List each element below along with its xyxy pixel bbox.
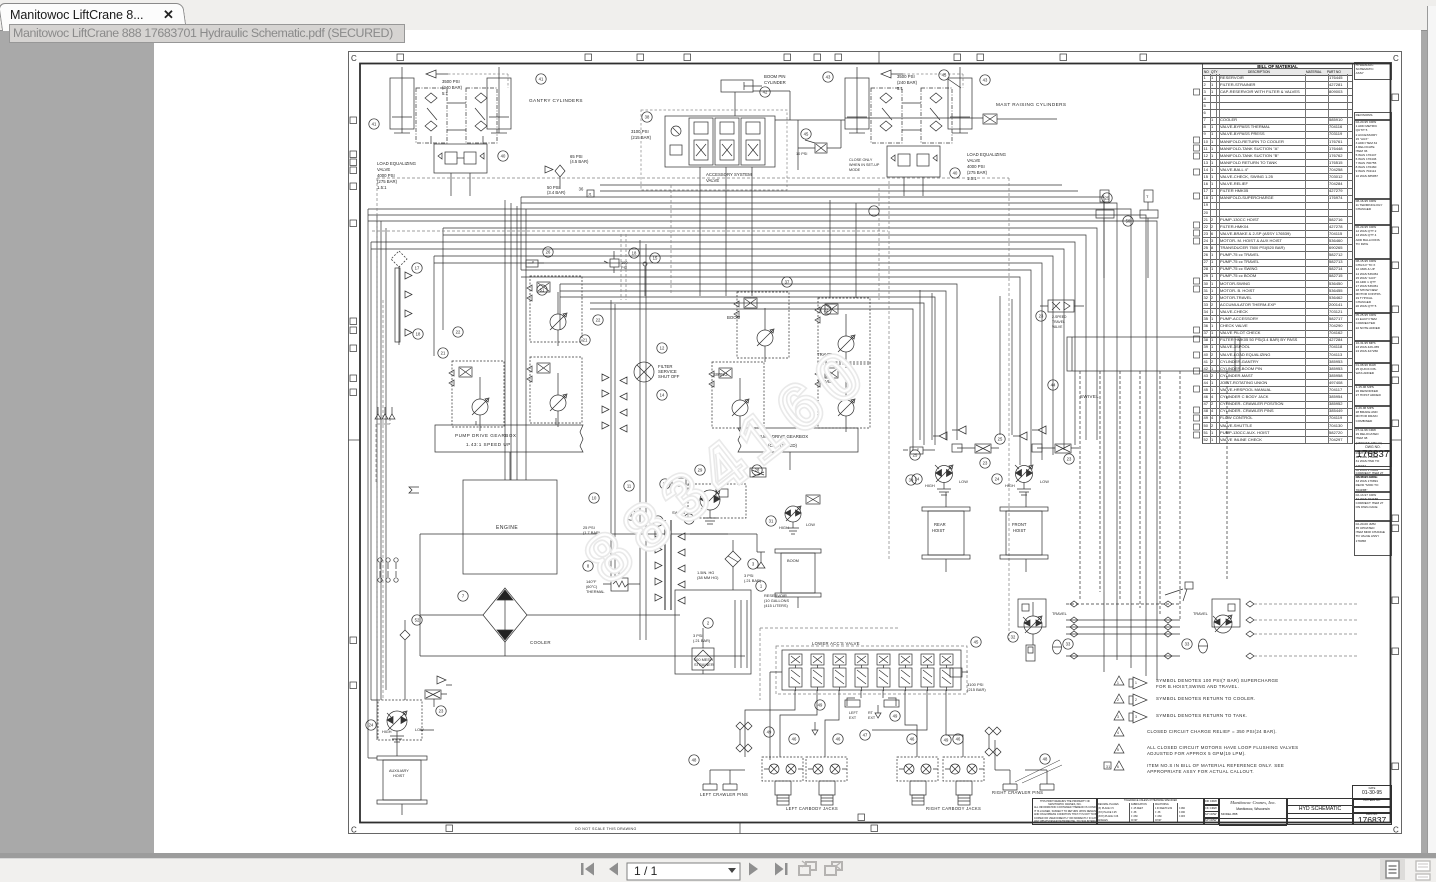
- svg-text:10: 10: [592, 496, 597, 501]
- svg-text:1.43:1 SPEED UP: 1.43:1 SPEED UP: [466, 442, 511, 447]
- svg-text:25: 25: [1105, 196, 1110, 201]
- svg-text:(275 BAR): (275 BAR): [377, 179, 398, 184]
- svg-text:MAST RAISING CYLINDERS: MAST RAISING CYLINDERS: [996, 102, 1066, 107]
- svg-text:SWIVEL: SWIVEL: [1080, 394, 1099, 399]
- svg-text:44: 44: [1051, 383, 1056, 388]
- svg-text:33: 33: [1185, 642, 1190, 647]
- svg-text:(240 BAR): (240 BAR): [442, 85, 463, 90]
- svg-text:46: 46: [836, 737, 841, 742]
- svg-text:LOW: LOW: [415, 728, 424, 732]
- svg-text:18: 18: [632, 251, 637, 256]
- svg-text:11: 11: [627, 484, 632, 489]
- svg-text:VALVE: VALVE: [377, 167, 390, 172]
- svg-text:2: 2: [707, 621, 710, 626]
- svg-text:(.21 BAR): (.21 BAR): [693, 638, 711, 643]
- svg-text:HOIST: HOIST: [932, 528, 945, 533]
- svg-text:1: 1: [1135, 681, 1137, 685]
- svg-text:41: 41: [539, 77, 544, 82]
- svg-text:ALL CLOSED CIRCUIT MOTORS HAVE: ALL CLOSED CIRCUIT MOTORS HAVE LOOP FLUS…: [1147, 745, 1298, 750]
- svg-text:HIGH: HIGH: [925, 483, 935, 488]
- svg-text:STRAINER: STRAINER: [694, 662, 714, 667]
- svg-text:LOW: LOW: [959, 479, 968, 484]
- svg-text:43: 43: [983, 78, 988, 83]
- svg-text:8: 8: [587, 564, 590, 569]
- svg-text:5:1: 5:1: [897, 86, 904, 91]
- svg-text:(4.5 BAR): (4.5 BAR): [570, 159, 589, 164]
- svg-text:WHEN IN SET-UP: WHEN IN SET-UP: [849, 163, 880, 167]
- svg-text:42: 42: [763, 90, 768, 95]
- svg-text:49: 49: [944, 738, 949, 743]
- svg-text:15: 15: [653, 256, 658, 261]
- svg-text:17: 17: [415, 266, 420, 271]
- svg-text:ITEM NO.S IN BILL OF MATERIAL: ITEM NO.S IN BILL OF MATERIAL REFERENCE …: [1147, 763, 1284, 768]
- svg-text:3500 PSI: 3500 PSI: [442, 79, 460, 84]
- svg-text:47: 47: [863, 733, 868, 738]
- svg-text:THERMAL: THERMAL: [586, 589, 605, 594]
- svg-text:30: 30: [909, 478, 914, 483]
- svg-text:21: 21: [441, 351, 446, 356]
- svg-text:1.5:1: 1.5:1: [377, 185, 387, 190]
- svg-text:2: 2: [1117, 698, 1119, 702]
- svg-text:CYLINDER: CYLINDER: [764, 80, 786, 85]
- svg-text:ACCESSORY SYSTEM: ACCESSORY SYSTEM: [706, 172, 752, 177]
- svg-text:21: 21: [583, 338, 588, 343]
- svg-text:10 PSI: 10 PSI: [796, 152, 807, 156]
- svg-text:HIGH: HIGH: [382, 730, 392, 734]
- svg-text:TRAVEL: TRAVEL: [1052, 320, 1065, 324]
- svg-text:FRONT: FRONT: [1012, 522, 1027, 527]
- svg-text:33: 33: [1066, 642, 1071, 647]
- svg-text:(3.4 BAR): (3.4 BAR): [547, 190, 566, 195]
- svg-text:51: 51: [540, 288, 545, 293]
- svg-text:T: T: [1146, 194, 1149, 199]
- svg-text:AUXILIARY: AUXILIARY: [389, 769, 409, 773]
- svg-text:VALVE: VALVE: [1052, 325, 1063, 329]
- svg-text:2: 2: [1135, 698, 1137, 702]
- svg-text:26: 26: [546, 250, 551, 255]
- svg-text:46: 46: [956, 737, 961, 742]
- svg-text:TRAVEL: TRAVEL: [1052, 611, 1068, 616]
- svg-text:(.21 BAR): (.21 BAR): [744, 578, 762, 583]
- svg-text:C: C: [1393, 826, 1399, 835]
- svg-text:(38 MM HG): (38 MM HG): [697, 575, 719, 580]
- svg-text:LEFT CARBODY JACKS: LEFT CARBODY JACKS: [786, 806, 838, 811]
- svg-text:VALVE: VALVE: [706, 178, 719, 183]
- svg-text:45: 45: [942, 73, 947, 78]
- svg-text:LOW: LOW: [1040, 479, 1049, 484]
- svg-text:23: 23: [1067, 457, 1072, 462]
- svg-text:(275 BAR): (275 BAR): [967, 170, 988, 175]
- svg-text:3500 PSI: 3500 PSI: [897, 74, 915, 79]
- svg-text:46: 46: [792, 737, 797, 742]
- svg-text:6: 6: [1117, 765, 1119, 769]
- svg-text:23: 23: [439, 709, 444, 714]
- svg-text:EXT: EXT: [849, 716, 857, 720]
- svg-text:48: 48: [1043, 757, 1048, 762]
- svg-text:MODE: MODE: [849, 168, 861, 172]
- svg-text:CLOSED CIRCUIT CHARGE RELIEF =: CLOSED CIRCUIT CHARGE RELIEF = 350 PSI(2…: [1147, 729, 1277, 734]
- svg-text:46: 46: [910, 737, 915, 742]
- svg-text:LOAD EQUALIZING: LOAD EQUALIZING: [377, 161, 417, 166]
- svg-text:7: 7: [462, 594, 465, 599]
- svg-text:5:1: 5:1: [442, 91, 449, 96]
- svg-text:22: 22: [824, 308, 829, 313]
- svg-text:FOR B.HOIST,SWING AND TRAVEL.: FOR B.HOIST,SWING AND TRAVEL.: [1156, 684, 1239, 689]
- svg-text:1.5:1: 1.5:1: [967, 176, 977, 181]
- svg-text:45: 45: [804, 132, 809, 137]
- svg-text:DO NOT SCALE THIS DRAWING: DO NOT SCALE THIS DRAWING: [575, 827, 637, 831]
- svg-text:14: 14: [660, 393, 665, 398]
- svg-text:HOIST: HOIST: [393, 774, 405, 778]
- svg-text:SYMBOL DENOTES RETURN TO TANK.: SYMBOL DENOTES RETURN TO TANK.: [1156, 713, 1248, 718]
- svg-text:36: 36: [579, 187, 584, 192]
- svg-text:(415 LITERS): (415 LITERS): [764, 603, 788, 608]
- svg-text:49: 49: [818, 703, 823, 708]
- svg-text:RIGHT CRAWLER PINS: RIGHT CRAWLER PINS: [992, 790, 1043, 795]
- svg-text:(215 BAR): (215 BAR): [631, 135, 652, 140]
- svg-text:BOOM: BOOM: [787, 558, 799, 563]
- svg-text:(240 BAR): (240 BAR): [897, 80, 918, 85]
- svg-text:LOAD EQUALIZING: LOAD EQUALIZING: [967, 152, 1007, 157]
- svg-text:41: 41: [372, 122, 377, 127]
- svg-text:24: 24: [995, 477, 1000, 482]
- svg-text:49: 49: [767, 730, 772, 735]
- svg-text:SYMBOL DENOTES 100 PSI(7 BAR): SYMBOL DENOTES 100 PSI(7 BAR) SUPERCHARG…: [1156, 678, 1279, 683]
- svg-text:31: 31: [1106, 765, 1110, 769]
- svg-text:PSI: PSI: [621, 265, 627, 270]
- svg-text:3100 PSI: 3100 PSI: [631, 129, 649, 134]
- svg-text:31: 31: [769, 519, 774, 524]
- svg-text:37: 37: [785, 280, 790, 285]
- svg-text:SHUT OFF: SHUT OFF: [658, 374, 680, 379]
- svg-text:GANTRY CYLINDERS: GANTRY CYLINDERS: [529, 98, 583, 103]
- svg-text:4000 PSI: 4000 PSI: [377, 173, 395, 178]
- svg-text:3: 3: [1117, 715, 1119, 719]
- svg-text:48: 48: [692, 758, 697, 763]
- svg-text:SYMBOL DENOTES RETURN TO COOLE: SYMBOL DENOTES RETURN TO COOLER.: [1156, 696, 1255, 701]
- svg-text:TRAVEL: TRAVEL: [1193, 611, 1209, 616]
- svg-text:LEFT: LEFT: [849, 711, 859, 715]
- svg-text:24: 24: [369, 723, 374, 728]
- svg-text:C: C: [1393, 54, 1399, 63]
- svg-text:(215 BAR): (215 BAR): [967, 687, 986, 692]
- svg-text:BOOM: BOOM: [727, 315, 741, 320]
- svg-text:23: 23: [983, 461, 988, 466]
- svg-text:C: C: [351, 54, 357, 63]
- svg-text:SWING: SWING: [713, 372, 728, 377]
- svg-text:VALVE: VALVE: [967, 158, 980, 163]
- svg-text:REAR: REAR: [934, 522, 946, 527]
- svg-text:40: 40: [501, 154, 506, 159]
- svg-text:50: 50: [1126, 219, 1131, 224]
- svg-text:25: 25: [998, 437, 1003, 442]
- svg-text:1: 1: [1117, 681, 1119, 685]
- svg-text:4000 PSI: 4000 PSI: [967, 164, 985, 169]
- svg-text:APPROPRIATE ASSY FOR ACTUAL CA: APPROPRIATE ASSY FOR ACTUAL CALLOUT.: [1147, 769, 1254, 774]
- svg-text:LEFT CRAWLER PINS: LEFT CRAWLER PINS: [700, 792, 748, 797]
- svg-text:RIGHT CARBODY JACKS: RIGHT CARBODY JACKS: [926, 806, 981, 811]
- svg-text:BOOM PIN: BOOM PIN: [764, 74, 786, 79]
- svg-text:5: 5: [1117, 748, 1119, 752]
- svg-text:18: 18: [416, 332, 421, 337]
- svg-text:32: 32: [1011, 635, 1016, 640]
- svg-text:52: 52: [415, 618, 420, 623]
- svg-text:38: 38: [645, 115, 650, 120]
- svg-text:49: 49: [893, 714, 898, 719]
- svg-text:22: 22: [596, 318, 601, 323]
- svg-text:ENGINE: ENGINE: [496, 525, 518, 531]
- svg-text:COOLER: COOLER: [530, 640, 551, 645]
- svg-text:HIGH: HIGH: [1005, 483, 1015, 488]
- svg-text:RT: RT: [868, 711, 874, 715]
- svg-text:45: 45: [974, 640, 979, 645]
- svg-text:2-SPEED: 2-SPEED: [1052, 315, 1067, 319]
- svg-text:3: 3: [752, 562, 755, 567]
- svg-text:23: 23: [1039, 314, 1044, 319]
- svg-text:ADJUSTED FOR APPROX 5 GPM(19 L: ADJUSTED FOR APPROX 5 GPM(19 LPM).: [1147, 751, 1246, 756]
- svg-text:C: C: [351, 826, 357, 835]
- svg-text:4: 4: [1117, 731, 1119, 735]
- svg-text:40: 40: [953, 171, 958, 176]
- svg-text:HIGH: HIGH: [779, 525, 789, 530]
- svg-text:43: 43: [826, 75, 831, 80]
- svg-text:J1: J1: [588, 193, 592, 197]
- svg-text:EXT: EXT: [868, 716, 876, 720]
- svg-text:1: 1: [760, 584, 763, 589]
- svg-text:HOIST: HOIST: [1013, 528, 1026, 533]
- svg-text:25: 25: [913, 453, 918, 458]
- svg-text:3: 3: [1135, 715, 1137, 719]
- svg-text:LOWER ACC'S VALVE: LOWER ACC'S VALVE: [812, 641, 860, 646]
- svg-text:22: 22: [456, 330, 461, 335]
- svg-text:LOW: LOW: [806, 522, 815, 527]
- svg-text:PUMP DRIVE GEARBOX: PUMP DRIVE GEARBOX: [455, 433, 517, 438]
- svg-text:CLOSE ONLY: CLOSE ONLY: [849, 158, 873, 162]
- svg-text:12: 12: [660, 346, 665, 351]
